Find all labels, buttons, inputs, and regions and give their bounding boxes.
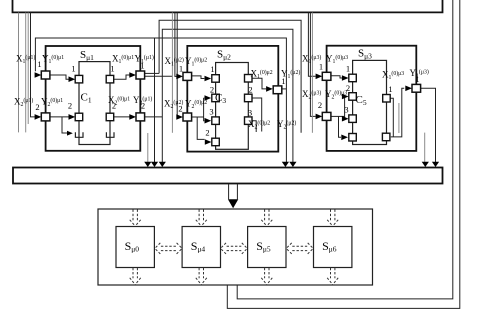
- svg-text:2: 2: [35, 102, 39, 112]
- svg-text:C3: C3: [215, 92, 226, 105]
- svg-text:X1(0)μ1: X1(0)μ1: [112, 54, 134, 66]
- svg-text:Y1(0)μ2: Y1(0)μ2: [185, 56, 207, 68]
- svg-text:1: 1: [388, 84, 392, 94]
- svg-text:C1: C1: [81, 92, 92, 105]
- svg-text:Sμ5: Sμ5: [256, 239, 271, 254]
- svg-text:3: 3: [209, 107, 213, 117]
- svg-text:2: 2: [346, 83, 350, 93]
- svg-text:Y2(0)μ3: Y2(0)μ3: [325, 89, 347, 101]
- svg-text:X2(μ3): X2(μ3): [302, 89, 321, 101]
- svg-text:2: 2: [210, 85, 214, 95]
- svg-text:Y1(0)μ1: Y1(0)μ1: [42, 54, 64, 66]
- svg-text:1: 1: [210, 64, 214, 74]
- svg-text:X1(0)μ3: X1(0)μ3: [382, 70, 404, 82]
- svg-text:Sμ2: Sμ2: [217, 49, 231, 62]
- svg-text:2: 2: [112, 101, 116, 111]
- svg-text:1: 1: [37, 59, 41, 69]
- svg-text:3: 3: [344, 105, 348, 115]
- svg-text:X2(0)μ2: X2(0)μ2: [248, 119, 270, 131]
- svg-text:1: 1: [140, 61, 144, 71]
- svg-text:1: 1: [179, 64, 183, 74]
- svg-text:1: 1: [281, 76, 285, 86]
- svg-text:1: 1: [415, 74, 419, 84]
- svg-text:Sμ4: Sμ4: [191, 239, 206, 254]
- svg-text:1: 1: [319, 62, 323, 72]
- svg-text:2: 2: [178, 104, 182, 114]
- svg-text:1: 1: [71, 64, 75, 74]
- svg-text:3: 3: [248, 108, 252, 118]
- svg-text:Sμ0: Sμ0: [125, 239, 140, 254]
- svg-text:2: 2: [205, 128, 209, 138]
- svg-text:Y2(0)μ1: Y2(0)μ1: [41, 97, 63, 109]
- svg-text:C5: C5: [356, 94, 367, 107]
- svg-text:2: 2: [141, 101, 145, 111]
- svg-text:Sμ3: Sμ3: [358, 48, 372, 61]
- svg-text:1: 1: [110, 64, 114, 74]
- svg-text:1: 1: [346, 64, 350, 74]
- svg-text:Sμ1: Sμ1: [80, 49, 94, 62]
- svg-text:Sμ6: Sμ6: [322, 239, 337, 254]
- svg-text:2: 2: [318, 100, 322, 110]
- svg-text:2: 2: [248, 85, 252, 95]
- svg-text:2: 2: [68, 101, 72, 111]
